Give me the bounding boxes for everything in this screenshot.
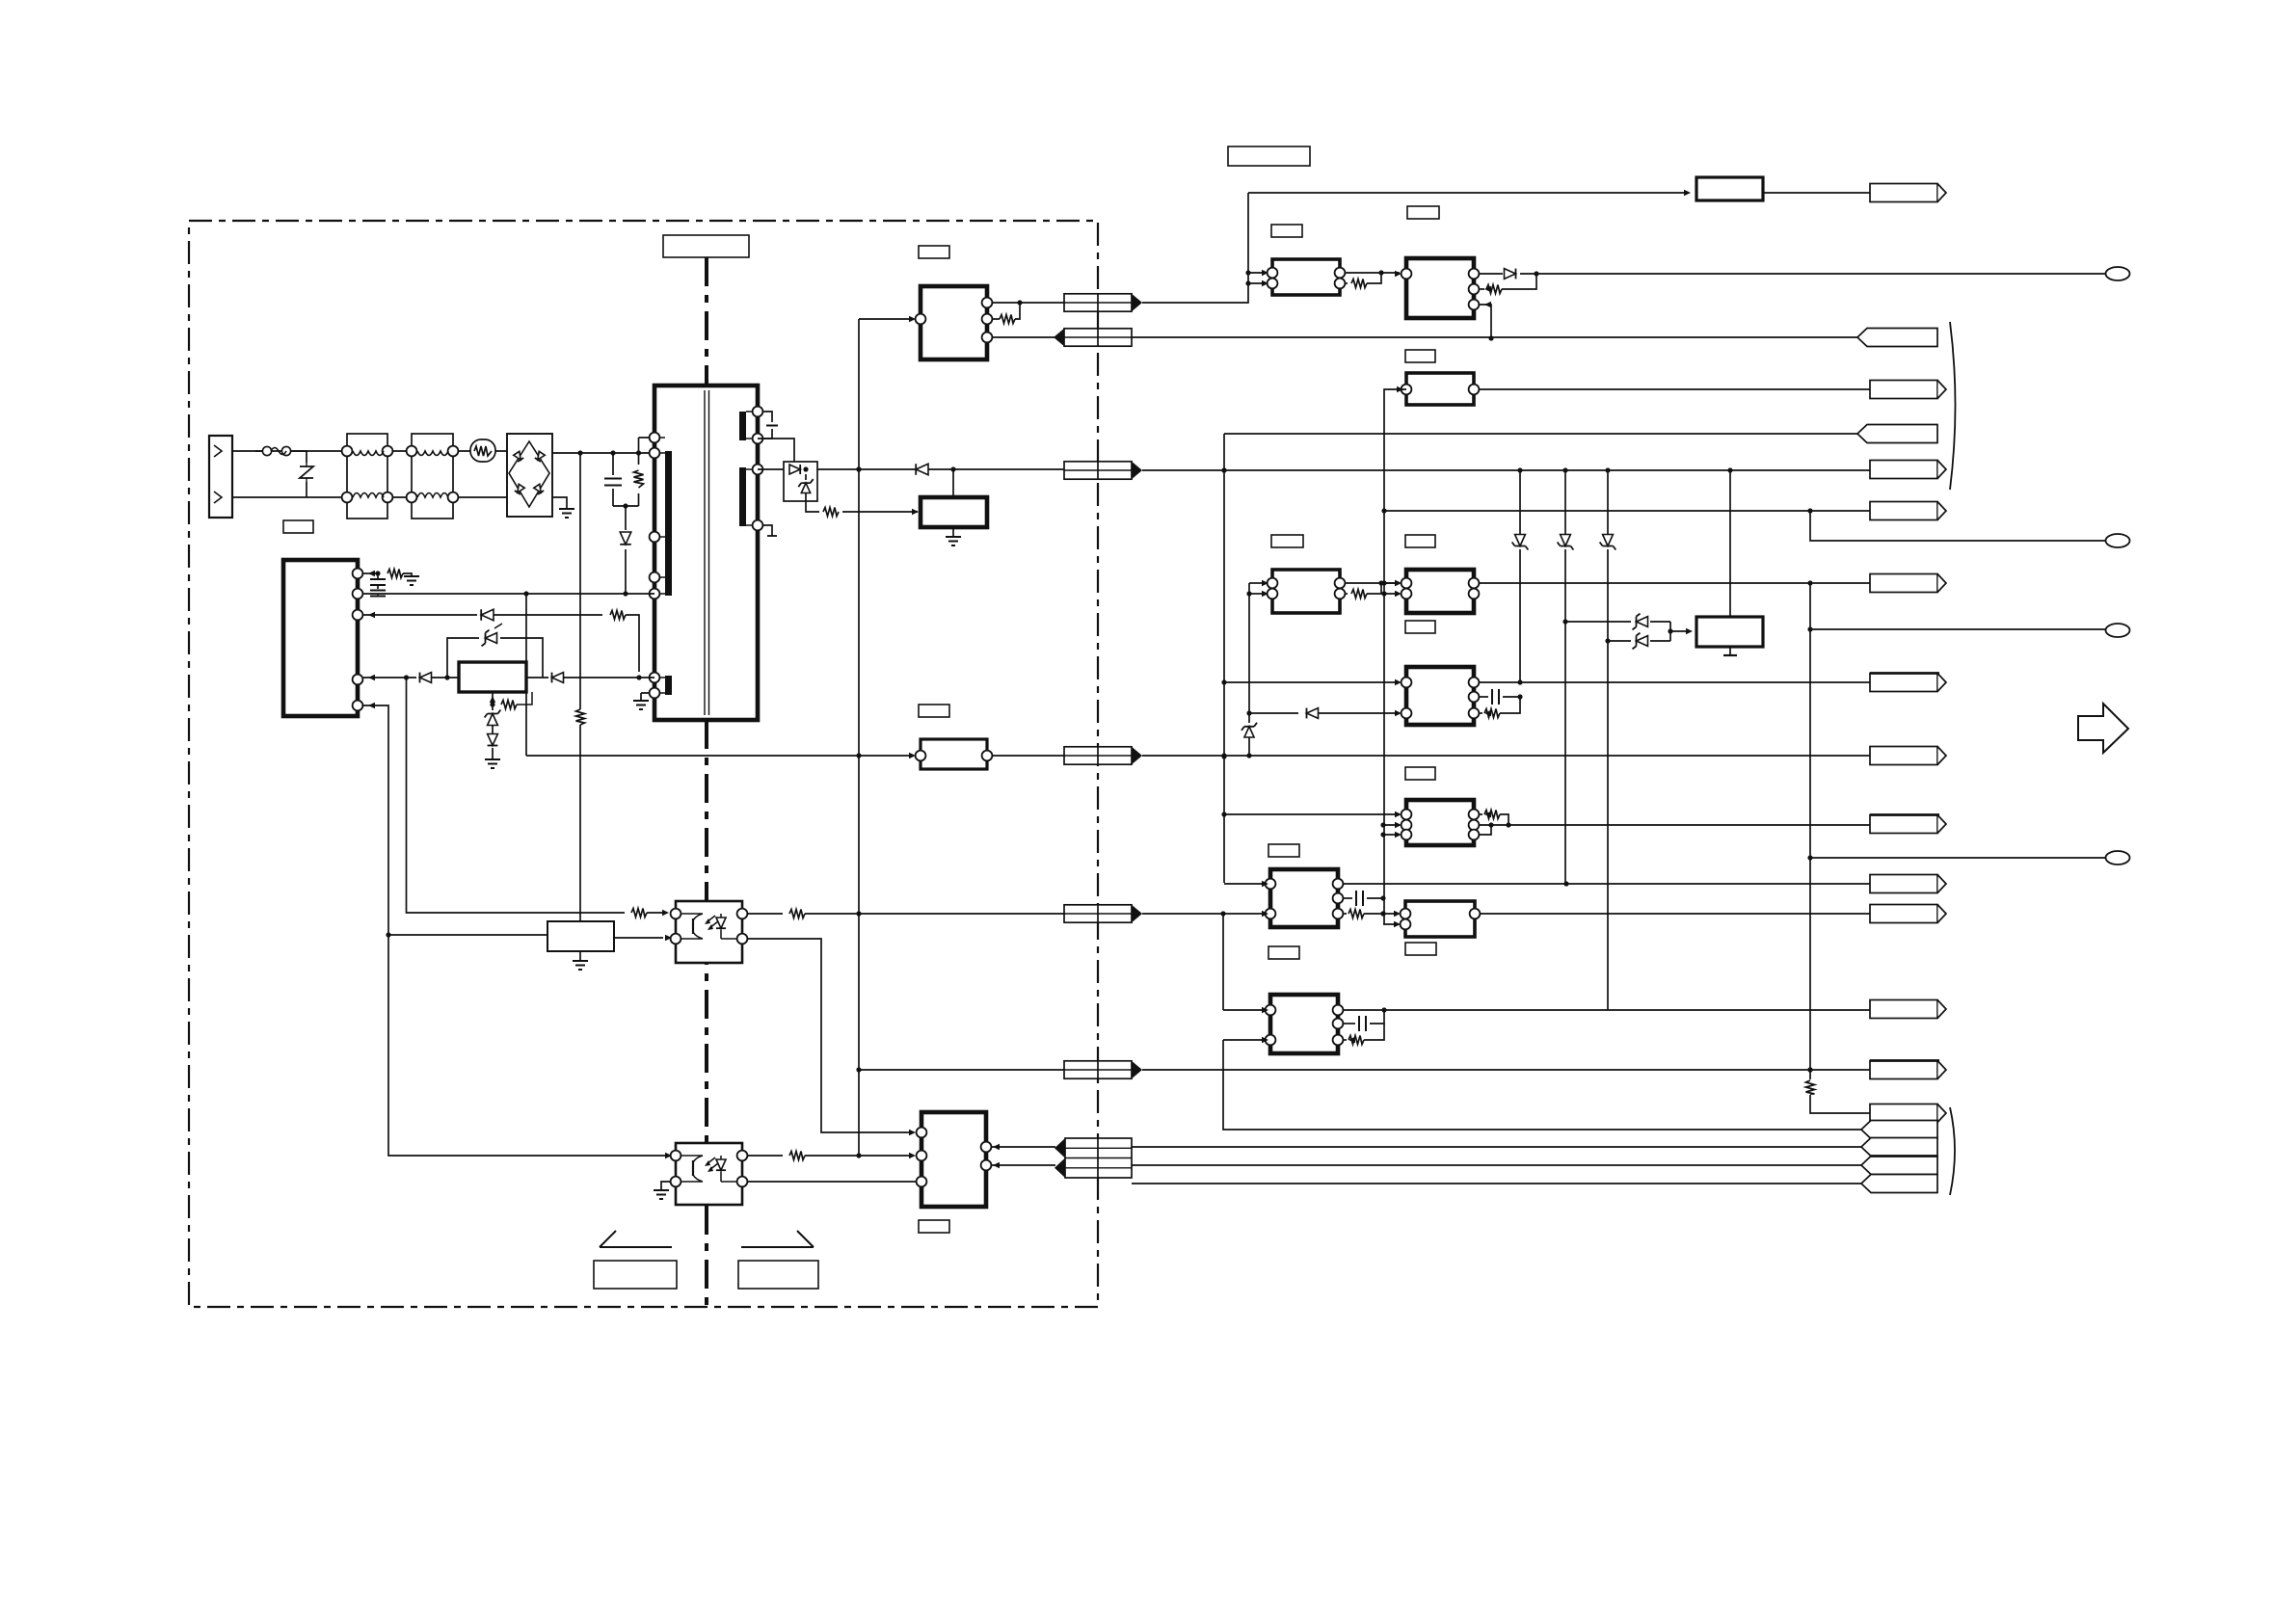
- wire J3 return rail: [1132, 336, 1857, 338]
- wire drop x1668: [1607, 470, 1609, 534]
- wire pin3 mid: [494, 614, 602, 616]
- diode D13: [1307, 708, 1319, 719]
- wire PC1 out bottom: [747, 939, 914, 1132]
- wire rail y530: [1384, 510, 1870, 512]
- wire U6 out: [1479, 824, 1870, 826]
- Q3 pins: [1268, 578, 1278, 589]
- resistor R8: [789, 1152, 805, 1160]
- fuse F1: [255, 450, 262, 452]
- wire main output: [758, 468, 1064, 470]
- bus connector J3 (return): [1064, 329, 1132, 346]
- resistor R17: [1809, 1070, 1811, 1079]
- page marker right label: [738, 1261, 818, 1289]
- wire B1 output: [614, 937, 663, 939]
- line filter choke L2: [412, 434, 453, 519]
- resistor R9: [992, 318, 1000, 320]
- Q2 pins: [1268, 268, 1278, 279]
- label block1b: [1271, 535, 1303, 547]
- regulator bottom node: [492, 692, 494, 705]
- rail tag 605: [1870, 574, 1937, 593]
- transformer pin stubs right: [746, 412, 753, 525]
- B3 label: [919, 1220, 949, 1233]
- regulator Q1 box: [459, 662, 526, 692]
- wire B7 gnd: [1729, 647, 1731, 655]
- B+ tag 450: [1857, 425, 1937, 443]
- wire C2 out rail: [1480, 913, 1870, 915]
- wire D1b out rail: [1343, 1009, 1870, 1011]
- wire C1 out rail: [1343, 883, 1870, 885]
- wire D1b in top: [1223, 1009, 1265, 1011]
- wire U4 feeds: [1384, 583, 1400, 594]
- wire U1 out1: [992, 302, 1064, 304]
- secondary winding bar lower: [739, 467, 746, 526]
- wire AC neutral: [232, 496, 507, 498]
- line filter choke L1: [347, 434, 387, 519]
- diode D4: [420, 673, 432, 683]
- U5 pins: [1402, 678, 1412, 688]
- rail tag 785: [1870, 747, 1937, 765]
- ground (PC2): [654, 1190, 669, 1199]
- wire J7 rail a: [1132, 1146, 1861, 1148]
- transformer label box: [663, 235, 749, 257]
- wire Q3 in b: [1249, 593, 1265, 595]
- bulk capacitor C1: [612, 453, 614, 475]
- main output tag: [1870, 461, 1937, 479]
- label block2b: [1405, 535, 1435, 547]
- capacitor C4: [1479, 696, 1488, 698]
- caps C2/C3 on Vcc: [377, 573, 379, 578]
- wire U0 pin1: [363, 572, 378, 574]
- wire main bus to secondary: [1142, 469, 1870, 471]
- wire Q3 feed drop: [1248, 583, 1250, 713]
- rail tag 917: [1870, 875, 1937, 893]
- wire tag2 feed: [1223, 1040, 1861, 1130]
- resistor R13: [1479, 712, 1482, 714]
- label C1: [1268, 844, 1299, 857]
- bracket top tag group: [1950, 322, 1956, 490]
- sync block C1: [1270, 869, 1338, 927]
- diode D9: [1505, 269, 1516, 279]
- diode D11: [1561, 535, 1571, 546]
- transformer pins left: [650, 433, 660, 443]
- resistor R4: [501, 701, 517, 709]
- wire AC live: [232, 450, 507, 452]
- wire pin4 node: [399, 677, 416, 678]
- resistor R15: [1343, 913, 1347, 915]
- isolation axis dash-dot line (upper): [705, 257, 708, 386]
- top label: [1228, 146, 1310, 166]
- wire drop x1795: [1729, 470, 1731, 617]
- wire to testpoint TP2: [1810, 511, 2105, 541]
- wire secondary open-end jog: [762, 412, 772, 439]
- wire U2 sense: [1479, 305, 1491, 338]
- wire U5 out rail: [1479, 681, 1870, 683]
- wire Vcc sense drop: [525, 594, 527, 756]
- U1 pins: [916, 314, 926, 325]
- wire B3 to J7 a: [991, 1146, 1055, 1148]
- wire U0 pin5: [363, 705, 388, 926]
- wire PC2 out top: [747, 1155, 783, 1157]
- U4 pins: [1402, 578, 1412, 589]
- ground (ZD1): [485, 759, 500, 768]
- startup diode D2: [625, 506, 627, 530]
- junction bulk node: [577, 450, 582, 455]
- wire zener join: [1670, 622, 1689, 641]
- testpoint TP2: [2106, 534, 2130, 547]
- wire stub block1 b: [1248, 282, 1265, 284]
- diode D12: [1603, 535, 1614, 546]
- wire rail drop x1878: [1809, 583, 1811, 1070]
- wire C1 in top: [1224, 883, 1265, 885]
- wire B5 out: [992, 755, 1064, 757]
- wire U2 out: [1479, 273, 1503, 275]
- return tag: [1857, 329, 1937, 347]
- PWM feedback IC U1: [921, 286, 987, 359]
- bracket comm tag group: [1950, 1107, 1955, 1195]
- housekeeping box B1: [547, 921, 614, 951]
- wire pin4 branch down: [407, 678, 626, 913]
- comm tag in3: [1861, 1157, 1937, 1175]
- feedback block B5: [921, 739, 987, 769]
- wire D1b in bot: [1223, 1039, 1265, 1041]
- page arrow: [2078, 704, 2128, 753]
- snubber resistor R1: [638, 438, 640, 465]
- wire to regulator: [432, 677, 460, 678]
- wire snubber feed: [579, 453, 581, 709]
- top aux box B6: [1696, 177, 1763, 200]
- rail tag 856: [1870, 815, 1937, 834]
- optocoupler PC2: [676, 1143, 742, 1205]
- page marker left label: [594, 1261, 677, 1289]
- diode D6: [488, 734, 498, 746]
- C2 pins: [1401, 909, 1411, 919]
- bus connector J5: [1064, 905, 1132, 922]
- diode D8: [916, 464, 928, 475]
- wire Q3 out: [1345, 582, 1400, 584]
- U0 pins: [353, 569, 363, 579]
- sync block C2: [1405, 901, 1475, 937]
- resistor R6: [631, 909, 647, 918]
- diode D10: [1515, 535, 1526, 546]
- PC2 pins: [671, 1151, 681, 1161]
- label block1: [1271, 225, 1302, 237]
- wire x891 sense bus: [858, 319, 860, 1156]
- wire stub block1 a: [1248, 272, 1265, 274]
- U6 pins: [1402, 810, 1412, 820]
- varistor Z1: [306, 451, 307, 497]
- primary winding bar: [665, 451, 672, 596]
- primary-side enclosure (dash-dot border): [189, 221, 1098, 1307]
- testpoint TP4: [2106, 851, 2130, 865]
- wire testpoint TP4: [1810, 857, 2105, 859]
- wire PC1 out top: [747, 913, 783, 915]
- rail tag 948: [1870, 905, 1937, 923]
- protection box B7: [1696, 617, 1763, 647]
- wire snubber B2 top: [952, 469, 954, 497]
- wire U3 out: [1479, 388, 1870, 390]
- page marker right: [741, 1231, 814, 1247]
- snubber block B2: [921, 497, 987, 527]
- ground (B2): [946, 537, 961, 545]
- regulator block Q2: [1272, 259, 1340, 295]
- U3 pins: [1402, 385, 1412, 395]
- capacitor C6: [1343, 1023, 1355, 1024]
- audio regulator U6: [1406, 800, 1474, 845]
- wire U6 jog: [1479, 825, 1491, 835]
- label lower block: [1405, 767, 1435, 780]
- transformer pin stubs left: [659, 438, 665, 693]
- wire B3 to J7 b: [991, 1164, 1055, 1166]
- wire bridge negative to ground: [552, 497, 567, 509]
- wire top rail: [1248, 192, 1687, 194]
- wire J7 rail b: [1132, 1164, 1861, 1166]
- wire drop x1624: [1564, 470, 1566, 534]
- wire C1 in bot: [1142, 913, 1265, 915]
- output tag 404: [1870, 381, 1937, 399]
- rail tag 1048: [1870, 1000, 1937, 1019]
- label block2: [1407, 206, 1439, 219]
- wire PC2 out bottom: [747, 1181, 916, 1183]
- bus connector J6: [1064, 1061, 1132, 1078]
- wire U6 in mid: [1383, 824, 1400, 826]
- pulse block D1b: [1270, 995, 1338, 1053]
- resistor R10: [1345, 282, 1348, 284]
- resistor R11: [1479, 288, 1484, 290]
- wire drop x1269: [1222, 914, 1224, 1010]
- transformer pins right: [753, 407, 763, 417]
- wire B1 input: [388, 934, 547, 936]
- wire PC2 anode: [388, 926, 670, 1156]
- bus connector J2: [1064, 294, 1132, 311]
- label C2b: [1405, 943, 1436, 955]
- wire PC2 cathode gnd: [661, 1182, 671, 1190]
- zener ZD1: [492, 705, 494, 710]
- wire winding top tap: [639, 437, 655, 439]
- wire U5 fb: [1249, 712, 1298, 714]
- wire U0 pin3: [363, 614, 477, 616]
- wire to testpoint TP3: [1810, 628, 2105, 630]
- wire B6 out: [1763, 192, 1870, 194]
- wire B5 in: [526, 755, 914, 757]
- thyristor feedback loop: [447, 638, 479, 678]
- U1 label: [919, 246, 949, 258]
- wire B2 gnd: [952, 527, 954, 537]
- wire winding tap to module: [758, 439, 794, 462]
- page marker left: [600, 1231, 672, 1247]
- ground (B1): [573, 961, 588, 970]
- comm tag in1: [1861, 1121, 1937, 1139]
- control IC label: [283, 520, 313, 533]
- bus connector J7: [1065, 1138, 1132, 1178]
- label C2: [1268, 946, 1299, 959]
- regulator block Q3: [1272, 570, 1340, 613]
- wire U3 in drop: [1384, 389, 1406, 511]
- wire to testpoint TP1: [1520, 273, 2105, 275]
- wire C2 feeds: [1383, 914, 1399, 924]
- diode D3: [481, 609, 494, 621]
- transformer T1 core box: [654, 386, 758, 720]
- wire secondary lower hook: [762, 525, 772, 536]
- wire U6 in top: [1224, 813, 1400, 815]
- wire snubber bottom: [613, 505, 639, 507]
- interface block B3: [921, 1112, 986, 1207]
- wire rail 1228: [1132, 1183, 1861, 1184]
- label big block: [1405, 621, 1435, 633]
- bridge rectifier D1: [507, 434, 552, 517]
- isolation axis dash-dot line (lower): [705, 720, 708, 1307]
- comm tag in4: [1861, 1175, 1937, 1193]
- testpoint TP3: [2106, 624, 2130, 637]
- secondary winding bar upper: [739, 412, 746, 440]
- aux winding bar: [665, 676, 672, 695]
- rail tag 1110: [1870, 1061, 1937, 1079]
- zener ZD3: [1608, 640, 1631, 642]
- rail tag 530: [1870, 502, 1937, 520]
- rail tag 708: [1870, 674, 1937, 692]
- U2 pins: [1402, 269, 1412, 279]
- bus connector J4: [1064, 747, 1132, 764]
- ground (bridge): [559, 509, 574, 518]
- wire U0 pin2 Vcc rail: [363, 593, 654, 595]
- wire x1436 drop: [1383, 511, 1385, 924]
- wire Q3 in a: [1249, 582, 1265, 584]
- PC1 pins: [671, 909, 681, 919]
- wire regulator out: [526, 677, 654, 678]
- regulator block U3: [1406, 373, 1474, 405]
- wire U1 in: [992, 336, 1055, 338]
- wire B+ branch tag450: [1224, 434, 1857, 883]
- top output tag: [1870, 184, 1937, 202]
- regulator block U2: [1406, 258, 1474, 318]
- wire drop x1577: [1519, 470, 1521, 534]
- testpoint TP1: [2106, 267, 2130, 280]
- ground (R2): [404, 576, 419, 585]
- wire U5 in: [1224, 681, 1400, 683]
- wire Q2 out: [1345, 272, 1400, 274]
- wire U0 pin4: [363, 677, 399, 678]
- B3 pins: [917, 1128, 927, 1138]
- wire B1 ground: [579, 951, 581, 961]
- label block3: [1405, 350, 1435, 362]
- AC inlet connector J0: [209, 436, 232, 518]
- main output bus connector J1: [1064, 462, 1132, 479]
- control IC U0: [283, 560, 358, 716]
- resistor R14: [1479, 813, 1482, 815]
- comm tag out: [1870, 1104, 1937, 1123]
- wire module to B2: [806, 501, 918, 512]
- x891 junctions: [856, 466, 861, 471]
- label feedback: [919, 705, 949, 717]
- comm tag in2: [1861, 1138, 1937, 1157]
- optocoupler PC1: [676, 901, 742, 963]
- thermistor TH1: [470, 439, 495, 462]
- wire U1 left pin: [859, 318, 914, 320]
- ground (aux winding): [633, 701, 649, 709]
- wire aux ground: [641, 693, 650, 701]
- wire fb rail: [1142, 755, 1870, 757]
- transformer core lines: [705, 390, 709, 715]
- ground (B7): [1723, 654, 1737, 656]
- diode D5: [552, 673, 564, 683]
- wire sense rail: [859, 1069, 1870, 1071]
- C1 pins: [1266, 879, 1276, 890]
- wire bridge output: [552, 452, 654, 454]
- resistor R12: [1345, 593, 1348, 595]
- resistor R5: [576, 709, 585, 725]
- wire U4 out rail: [1479, 582, 1870, 584]
- wire U6 in bot: [1383, 834, 1400, 836]
- resistor R2: [387, 570, 403, 578]
- D1b pins: [1266, 1005, 1276, 1016]
- resistor R3: [610, 611, 626, 620]
- dual diode module D7: [784, 462, 817, 501]
- B5 pins: [916, 751, 926, 761]
- capacitor C5: [1343, 897, 1352, 899]
- wire J2 to blocks: [1142, 193, 1248, 303]
- zener ZD4: [1248, 713, 1250, 723]
- resistor R7: [789, 910, 805, 918]
- resistor R16: [1343, 1039, 1347, 1041]
- zener ZD2: [1565, 621, 1631, 623]
- regulator block U4: [1406, 570, 1474, 613]
- main regulator U5: [1406, 667, 1474, 725]
